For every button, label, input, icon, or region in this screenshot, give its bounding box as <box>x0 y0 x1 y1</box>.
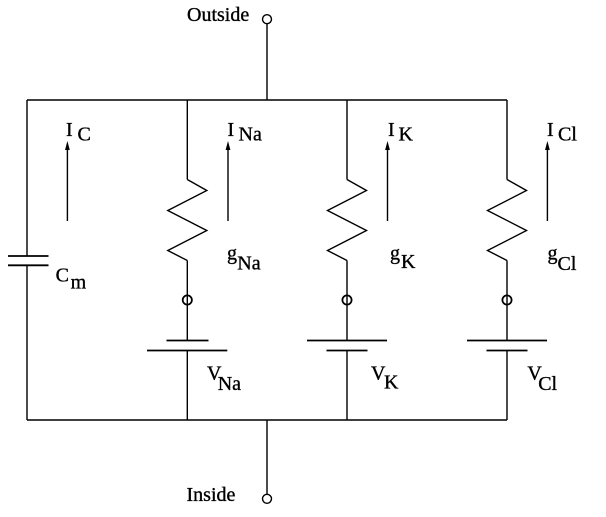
svg-text:K: K <box>401 251 416 273</box>
svg-text:Inside: Inside <box>187 484 236 506</box>
svg-text:g: g <box>227 242 237 264</box>
svg-text:Cl: Cl <box>558 253 577 275</box>
svg-text:I: I <box>388 119 395 141</box>
svg-text:C: C <box>78 123 91 145</box>
svg-text:Na: Na <box>239 124 262 146</box>
svg-text:g: g <box>390 242 400 264</box>
svg-text:g: g <box>548 242 558 264</box>
svg-text:K: K <box>399 124 414 146</box>
svg-text:Na: Na <box>237 253 260 275</box>
svg-text:Cl: Cl <box>558 124 577 146</box>
svg-text:m: m <box>71 271 87 293</box>
svg-text:I: I <box>547 119 554 141</box>
svg-text:Cl: Cl <box>538 373 557 395</box>
svg-text:I: I <box>228 119 235 141</box>
svg-text:Na: Na <box>218 373 241 395</box>
svg-text:C: C <box>56 265 69 287</box>
svg-text:Outside: Outside <box>187 4 249 26</box>
svg-text:I: I <box>66 119 73 141</box>
svg-text:K: K <box>384 372 399 394</box>
